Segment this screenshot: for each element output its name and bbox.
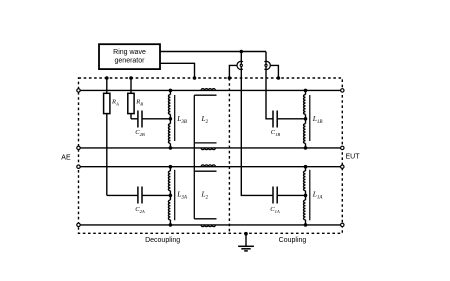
node: L3B top on line 1 (169, 89, 173, 93)
svg-text:C1B: C1B (271, 129, 281, 137)
enclosure dashed border (CDN box) (79, 78, 343, 233)
ground (protective earth on enclosure) (238, 232, 254, 251)
switch S1 (left coupling selector plug) (229, 61, 243, 78)
inductor L3A (168, 167, 188, 225)
terminal: EUT line 3 (341, 165, 344, 168)
node: S2 reference tie on border (277, 76, 281, 80)
svg-text:Decoupling: Decoupling (145, 237, 180, 244)
node: L1A bottom on line 4 (304, 223, 308, 227)
terminal: AE line 3 (77, 165, 80, 168)
svg-text:L2: L2 (201, 114, 209, 125)
svg-text:L3B: L3B (176, 114, 187, 125)
terminal: AE line 1 (77, 89, 80, 92)
wire: conductor line 4 (bottom) AE to EUT (79, 224, 343, 226)
wire: conductor line 1 (top) AE to EUT (79, 89, 343, 91)
resistor RB (128, 78, 143, 119)
node: L3A tap / C2A junction (169, 194, 173, 198)
svg-text:generator: generator (115, 58, 146, 65)
svg-text:C1A: C1A (270, 206, 280, 214)
node: feed branch junction (240, 50, 244, 54)
svg-text:Ring wave: Ring wave (113, 49, 146, 56)
terminal: AE line 4 (77, 223, 80, 226)
terminal: AE line 2 (77, 146, 80, 149)
switch S2 (right coupling selector plug) (264, 61, 278, 78)
svg-text:C2A: C2A (135, 206, 145, 214)
node: L3B tap / C2B junction (169, 117, 173, 121)
node: L3B bottom on line 2 (169, 146, 173, 150)
node: RB tie on enclosure border (129, 76, 133, 80)
inductor L1B (304, 90, 323, 147)
svg-text:EUT: EUT (346, 154, 361, 161)
resistor RA (104, 78, 119, 195)
inductor L2 (upper common-mode choke windings) (201, 89, 216, 150)
terminal: EUT line 2 (341, 146, 344, 149)
inductor L1A (304, 167, 324, 225)
node: L1A top on line 3 (304, 165, 308, 169)
node: L3A top on line 3 (169, 165, 173, 169)
svg-text:C2B: C2B (135, 129, 145, 137)
svg-text:L3A: L3A (176, 189, 188, 200)
svg-text:Coupling: Coupling (279, 237, 307, 244)
wire: conductor line 3 AE to EUT (79, 166, 343, 168)
svg-text:L2: L2 (201, 189, 209, 200)
node: S1 reference tie on border (228, 76, 232, 80)
node: L3A bottom on line 4 (169, 223, 173, 227)
inductor L3B (168, 90, 187, 147)
node: generator return on enclosure border (193, 76, 197, 80)
capacitor C2A (107, 187, 171, 214)
terminal: EUT line 4 (341, 223, 344, 226)
wire: generator output 1 (top feed to coupling switches) (160, 51, 266, 53)
node: L1B bottom on line 2 (304, 146, 308, 150)
node: L1B top on line 1 (304, 89, 308, 93)
wire: generator output 2 (return to enclosure reference) (160, 63, 195, 78)
capacitor C2B (131, 111, 170, 138)
wire: left switch drop (to C1A) (241, 52, 273, 196)
svg-text:L1B: L1B (312, 114, 323, 125)
dashed divider between decoupling and coupling sections (228, 78, 230, 233)
svg-text:RA: RA (111, 98, 119, 106)
ring wave generator U1 (99, 44, 160, 69)
wire: right switch drop (to C1B) (266, 52, 273, 119)
L2 common magnetic core (194, 95, 216, 219)
capacitor C1A (270, 187, 305, 214)
svg-text:L1A: L1A (312, 189, 324, 200)
node: L1B tap / C1B junction (304, 117, 308, 121)
node: RA tie on enclosure border (105, 76, 109, 80)
terminal: EUT line 1 (341, 89, 344, 92)
wire: conductor line 2 AE to EUT (79, 147, 343, 149)
inductor L2 (lower common-mode choke windings) (201, 165, 216, 227)
svg-text:AE: AE (61, 155, 71, 162)
svg-text:RB: RB (135, 98, 143, 106)
node: L1A tap / C1A junction (304, 194, 308, 198)
capacitor C1B (271, 111, 306, 138)
